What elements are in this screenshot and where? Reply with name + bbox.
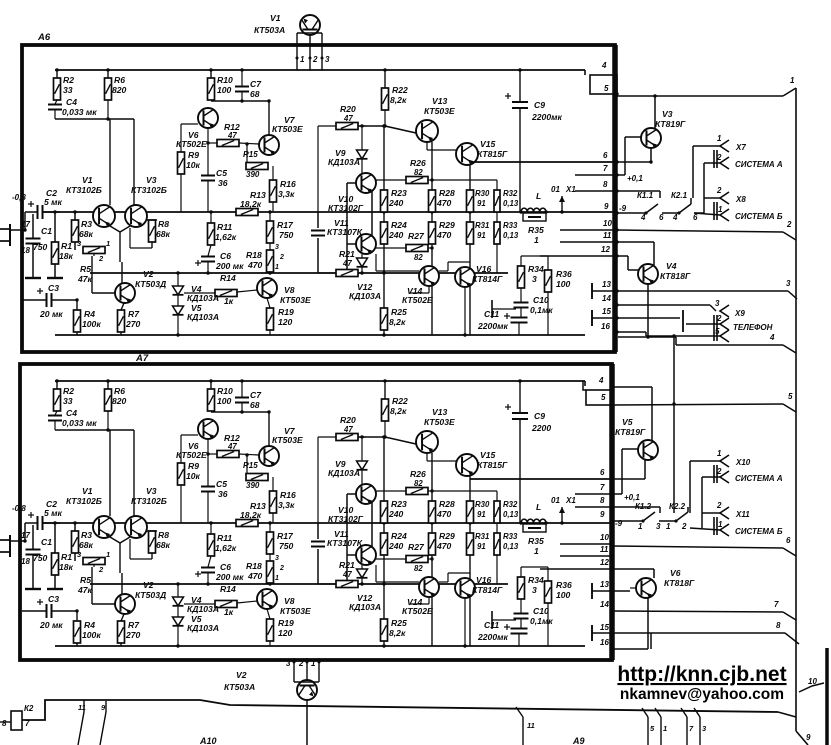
svg-text:СИСТЕМА Б: СИСТЕМА Б: [735, 212, 783, 221]
wire 6 A7: [612, 536, 796, 556]
wire ch2 V14-V16: [376, 565, 470, 582]
wire ch1 pin12stub: [540, 255, 617, 257]
wire 5 stub: [642, 708, 655, 745]
svg-text:68: 68: [250, 400, 260, 410]
svg-text:V5: V5: [622, 417, 633, 427]
svg-text:1: 1: [300, 55, 305, 64]
capacitor C11 ch1: [477, 309, 528, 335]
svg-text:R23: R23: [391, 499, 407, 509]
diode V4 ch2: [173, 582, 220, 614]
transistor V1 ch1: [66, 175, 115, 227]
diode V5 ch1: [173, 295, 220, 337]
capacitor C2 ch2: [25, 499, 63, 541]
svg-text:R27: R27: [408, 542, 425, 552]
svg-text:2: 2: [681, 522, 687, 531]
svg-text:100к: 100к: [82, 319, 101, 329]
svg-text:R8: R8: [158, 219, 169, 229]
svg-text:2: 2: [98, 254, 104, 263]
wire pin12 A6 ext: [617, 256, 639, 270]
svg-text:68к: 68к: [79, 540, 94, 550]
wire ch1 V13-V15: [427, 142, 456, 150]
pin 13 block A7: [600, 580, 614, 593]
svg-text:R28: R28: [439, 499, 455, 509]
svg-text:С4: С4: [66, 408, 77, 418]
wire ch2 pin11stub: [560, 555, 612, 557]
svg-text:R31: R31: [475, 221, 489, 230]
svg-text:КТ3102Б: КТ3102Б: [66, 185, 102, 195]
wire right trunk: [796, 88, 808, 745]
wire 11 stub left: [78, 700, 86, 745]
resistor R21 ch1: [318, 212, 362, 277]
svg-text:3: 3: [275, 555, 279, 562]
wire 10 link: [799, 677, 824, 692]
svg-text:14: 14: [600, 600, 609, 609]
capacitor C11 ch2: [477, 620, 528, 646]
wire ch2 mid rail: [43, 521, 612, 524]
svg-text:КТ818Г: КТ818Г: [660, 271, 691, 281]
svg-text:X10: X10: [735, 458, 751, 467]
wire V5 emit: [612, 460, 645, 479]
svg-text:КТ3102Б: КТ3102Б: [131, 185, 167, 195]
svg-text:-0,8: -0,8: [12, 193, 26, 202]
capacitor C3 ch2: [22, 594, 78, 630]
transistor V5 KT819G: [615, 417, 658, 460]
capacitor C8 ch2: [311, 542, 325, 547]
wire ch1 pin13stub: [592, 283, 617, 299]
svg-text:11: 11: [603, 231, 612, 240]
svg-text:2: 2: [786, 220, 792, 229]
svg-text:R21: R21: [339, 249, 355, 259]
svg-text:КТ814Г: КТ814Г: [472, 274, 503, 284]
svg-text:750: 750: [33, 242, 48, 252]
connector X7 pin2: [704, 153, 783, 169]
svg-text:R36: R36: [556, 269, 572, 279]
wire ch2 pin8stub: [575, 506, 612, 508]
wire ch2 base column: [347, 494, 356, 581]
wire ch1 V9-V10: [362, 159, 366, 173]
wire ch1 pin15stub: [592, 310, 617, 326]
svg-text:R2: R2: [63, 386, 74, 396]
svg-text:С10: С10: [533, 295, 549, 305]
svg-text:С3: С3: [48, 594, 59, 604]
svg-text:V3: V3: [146, 486, 157, 496]
svg-text:А10: А10: [199, 736, 217, 745]
connector X9 pin2: [617, 310, 773, 332]
wire ch2 bottom rail: [55, 645, 585, 647]
svg-text:01: 01: [551, 185, 560, 194]
diode V12 ch1: [349, 254, 381, 301]
wire pin4 A7 ext: [612, 387, 652, 440]
resistor R11 ch2: [208, 521, 237, 556]
wire 11 stub: [516, 707, 535, 745]
wire V6 base: [612, 588, 636, 591]
svg-text:20 мк: 20 мк: [39, 309, 63, 319]
svg-text:R16: R16: [280, 490, 296, 500]
svg-text:8,2к: 8,2к: [390, 406, 407, 416]
svg-text:С1: С1: [41, 226, 52, 236]
transistor V15 ch1: [456, 139, 508, 165]
capacitor C10 ch1: [514, 295, 554, 317]
svg-text:R6: R6: [114, 75, 125, 85]
wire V1 pins: [297, 33, 322, 70]
connector X9 pin3: [617, 299, 745, 318]
wire ch1 fb: [55, 117, 134, 205]
svg-text:100к: 100к: [82, 630, 101, 640]
transistor V2 ch1: [115, 269, 166, 303]
capacitor C7 ch2: [235, 379, 262, 412]
svg-text:6: 6: [659, 213, 664, 222]
resistor R28 ch2: [429, 499, 455, 523]
transistor V7 ch2: [259, 426, 303, 466]
wire ch1 V2coll: [121, 262, 123, 283]
svg-text:КТ503Е: КТ503Е: [424, 417, 455, 427]
svg-text:V6: V6: [670, 568, 681, 578]
svg-text:R35: R35: [528, 536, 544, 546]
resistor R32 ch2: [494, 491, 519, 533]
svg-text:R23: R23: [391, 188, 407, 198]
svg-text:1к: 1к: [224, 607, 234, 617]
svg-text:470: 470: [247, 571, 263, 581]
svg-text:82: 82: [414, 253, 423, 262]
wire V2 down: [306, 706, 308, 745]
relay K2 bottom left: [0, 704, 34, 730]
svg-text:0,13: 0,13: [503, 510, 519, 519]
svg-text:L: L: [536, 502, 541, 512]
wire ch2 C2-base: [43, 522, 60, 524]
trimmer R5 ch1: [77, 239, 110, 284]
svg-text:R28: R28: [439, 188, 455, 198]
svg-text:3: 3: [275, 244, 279, 251]
node X1 ch1: [551, 185, 576, 214]
wire X10 link: [690, 461, 702, 528]
svg-text:А7: А7: [135, 353, 149, 364]
svg-text:КД103А: КД103А: [187, 312, 219, 322]
svg-text:470: 470: [436, 198, 452, 208]
svg-text:390: 390: [246, 170, 260, 179]
wire 9 stub left: [100, 701, 106, 745]
resistor R3 ch2: [72, 523, 94, 561]
svg-text:4: 4: [640, 213, 646, 222]
resistor R31 ch1: [467, 221, 490, 244]
svg-text:47: 47: [342, 570, 352, 579]
resistor R23 ch2: [381, 499, 407, 523]
wire ch1 bottom rail: [55, 334, 585, 336]
wire 2 A6: [617, 220, 796, 240]
svg-text:4: 4: [769, 333, 775, 342]
resistor R33 ch1: [494, 221, 519, 273]
svg-text:470: 470: [436, 541, 452, 551]
svg-text:120: 120: [278, 317, 293, 327]
svg-text:R33: R33: [503, 221, 518, 230]
pin 16 block A7: [600, 638, 614, 651]
svg-text:68к: 68к: [156, 540, 171, 550]
svg-text:R15: R15: [243, 150, 258, 159]
svg-text:2: 2: [716, 501, 722, 510]
resistor R26 ch1: [376, 158, 432, 184]
svg-text:91: 91: [477, 199, 486, 208]
svg-text:2: 2: [98, 565, 104, 574]
svg-text:R14: R14: [220, 584, 236, 594]
svg-text:R35: R35: [528, 225, 544, 235]
transistor V3 ch1: [125, 175, 167, 227]
svg-text:X1: X1: [565, 496, 576, 505]
svg-text:1: 1: [106, 550, 110, 559]
wire right margin: [825, 648, 829, 745]
wire 3 stub: [694, 708, 707, 745]
svg-text:X8: X8: [735, 195, 746, 204]
svg-text:КТ3107К: КТ3107К: [327, 538, 363, 548]
resistor R33 ch2: [494, 532, 519, 584]
transistor V4 KT818G: [638, 261, 691, 284]
resistor R10 ch1: [208, 68, 233, 100]
wire ch1 col432: [430, 142, 433, 335]
svg-text:3,3к: 3,3к: [278, 500, 295, 510]
transistor V14 ch2: [402, 577, 439, 616]
svg-text:R1: R1: [61, 241, 72, 251]
svg-text:КД103А: КД103А: [328, 157, 360, 167]
wire K2 out: [22, 700, 778, 720]
wire ch1 pin10stub: [560, 229, 617, 231]
svg-text:7: 7: [600, 483, 605, 492]
transistor V15 ch2: [456, 450, 508, 476]
resistor R35 ch1: [523, 213, 546, 245]
resistor R30 ch2: [467, 500, 490, 523]
capacitor C9 ch1: [505, 68, 562, 212]
svg-text:R10: R10: [217, 386, 233, 396]
svg-text:4: 4: [601, 61, 607, 70]
wire pin12 A7 ext: [612, 569, 654, 578]
wire ch2 pin14stub: [492, 611, 516, 629]
svg-text:91: 91: [477, 510, 486, 519]
wire 1 stub: [655, 708, 667, 745]
wire ch2 lower rail: [90, 583, 508, 585]
svg-text:R36: R36: [556, 580, 572, 590]
svg-text:R21: R21: [339, 560, 355, 570]
svg-text:X11: X11: [735, 510, 750, 519]
resistor R8 ch1: [147, 219, 171, 248]
svg-text:R1: R1: [61, 552, 72, 562]
pin 18 ch2: [21, 557, 30, 566]
svg-text:11: 11: [527, 721, 535, 730]
trimmer marks ch2: [275, 555, 284, 582]
pin 11 block A7: [600, 545, 614, 558]
wire V5 base: [612, 449, 640, 502]
svg-text:1: 1: [275, 264, 279, 271]
svg-text:R5: R5: [80, 575, 91, 585]
resistor R24 ch1: [381, 220, 407, 244]
svg-text:20 мк: 20 мк: [39, 620, 63, 630]
pin 15 block A6: [602, 307, 619, 320]
wire ch2 pin13stub: [592, 583, 612, 599]
resistor R12 ch1: [206, 122, 259, 147]
wire ch2 R32top: [432, 491, 497, 523]
wire ch1 col384: [382, 124, 385, 336]
wire 4 A6: [676, 333, 796, 353]
svg-text:11: 11: [78, 703, 86, 712]
svg-text:3: 3: [786, 279, 791, 288]
wire ch2 V9-V10: [362, 470, 366, 484]
resistor R27 ch1: [376, 231, 432, 262]
svg-text:R20: R20: [340, 104, 356, 114]
svg-text:18к: 18к: [59, 562, 74, 572]
svg-text:К2: К2: [24, 704, 34, 713]
svg-text:R6: R6: [114, 386, 125, 396]
svg-text:С9: С9: [534, 411, 545, 421]
connector X7: [693, 134, 746, 168]
capacitor C2 ch1: [25, 188, 63, 230]
resistor R10 ch2: [208, 379, 233, 411]
svg-text:R16: R16: [280, 179, 296, 189]
svg-text:V2: V2: [143, 269, 154, 279]
svg-text:750: 750: [33, 553, 48, 563]
svg-text:R17: R17: [277, 531, 294, 541]
resistor R7 ch1: [118, 303, 141, 335]
relay contact K2.1: [662, 191, 704, 222]
svg-text:1: 1: [534, 235, 539, 245]
resistor R23 ch1: [381, 188, 407, 212]
pin 8 block A7: [600, 496, 614, 509]
pin 4-5 notch A6: [590, 75, 617, 94]
svg-text:240: 240: [388, 198, 404, 208]
wire ch1 pin6row: [470, 161, 617, 163]
wire ch1 base column: [347, 183, 356, 270]
pin 13 block A6: [602, 280, 619, 293]
wire ch1 V10-V11 emitters: [371, 191, 373, 237]
resistor R14 ch1: [184, 273, 257, 306]
svg-text:К2.1: К2.1: [671, 191, 688, 200]
capacitor C4 ch2: [48, 408, 97, 430]
svg-text:270: 270: [125, 319, 141, 329]
svg-text:С1: С1: [41, 537, 52, 547]
svg-text:ТЕЛЕФОН: ТЕЛЕФОН: [733, 323, 773, 332]
svg-text:СИСТЕМА А: СИСТЕМА А: [735, 474, 783, 483]
svg-text:1: 1: [275, 575, 279, 582]
svg-text:9: 9: [604, 202, 609, 211]
svg-text:R5: R5: [80, 264, 91, 274]
svg-text:R17: R17: [277, 220, 294, 230]
svg-text:47: 47: [343, 425, 353, 434]
trimmer R5 ch2: [77, 550, 110, 595]
svg-text:К1.1: К1.1: [637, 191, 654, 200]
wire pin8 A7 ext: [612, 507, 660, 513]
connector X9 pin5: [714, 315, 729, 342]
wire ch2 y101: [211, 410, 269, 413]
capacitor C10 ch2: [514, 606, 554, 628]
svg-text:0,13: 0,13: [503, 542, 519, 551]
svg-text:12: 12: [601, 245, 610, 254]
svg-text:R3: R3: [81, 219, 92, 229]
svg-text:2200: 2200: [531, 423, 551, 433]
capacitor C6 ch1: [195, 245, 244, 275]
svg-text:+0,1: +0,1: [624, 493, 640, 502]
svg-text:1: 1: [106, 239, 110, 248]
svg-text:5 мк: 5 мк: [44, 197, 63, 207]
wire V6 emit: [612, 598, 651, 649]
svg-text:3: 3: [325, 55, 330, 64]
pin 17 ch1: [21, 220, 30, 229]
svg-text:R26: R26: [410, 158, 426, 168]
resistor R3 ch1: [72, 212, 94, 250]
svg-text:18к: 18к: [59, 251, 74, 261]
transistor V2 KT503A bottom: [224, 670, 317, 700]
capacitor C9 ch2: [505, 379, 551, 523]
svg-text:R3: R3: [81, 530, 92, 540]
wire pin6 A6 ext: [617, 161, 650, 163]
pin 11 block A6: [603, 231, 619, 244]
svg-text:270: 270: [125, 630, 141, 640]
svg-text:С7: С7: [250, 79, 262, 89]
node X1 ch2: [551, 496, 576, 525]
svg-text:0,1мк: 0,1мк: [530, 616, 553, 626]
svg-text:R27: R27: [408, 231, 425, 241]
svg-text:КД103А: КД103А: [349, 602, 381, 612]
svg-text:5 мк: 5 мк: [44, 508, 63, 518]
svg-text:-9: -9: [619, 204, 627, 213]
svg-text:3: 3: [286, 659, 291, 668]
resistor R19 ch2: [267, 609, 294, 646]
svg-text:5: 5: [788, 392, 793, 401]
relay contact K1.2: [612, 502, 661, 531]
svg-text:V3: V3: [662, 109, 673, 119]
wire ch2 fb: [55, 428, 134, 516]
wire ch2 R5-V2base: [92, 567, 115, 604]
svg-text:С6: С6: [220, 251, 231, 261]
svg-text:http://knn.cjb.net: http://knn.cjb.net: [617, 663, 786, 686]
wire ch1 emitters: [110, 226, 130, 262]
wire V4 emit: [618, 284, 676, 339]
svg-text:А6: А6: [37, 32, 51, 43]
relay contact K1.1: [617, 191, 664, 222]
svg-text:33: 33: [63, 396, 73, 406]
resistor R22 ch2: [382, 379, 408, 437]
capacitor C1 ch2: [25, 525, 52, 589]
wire V3 coll: [653, 94, 656, 128]
capacitor C8 ch1: [311, 231, 325, 236]
resistor R13 ch2: [236, 501, 266, 527]
svg-text:6: 6: [693, 213, 698, 222]
svg-text:2200мк: 2200мк: [531, 112, 562, 122]
resistor R11 ch1: [208, 210, 237, 245]
svg-text:R4: R4: [84, 309, 95, 319]
svg-text:V13: V13: [432, 407, 448, 417]
transistor V10 ch1: [328, 173, 376, 213]
svg-text:С9: С9: [534, 100, 545, 110]
resistor R14 ch2: [184, 584, 257, 617]
svg-text:КТ818Г: КТ818Г: [664, 578, 695, 588]
svg-text:5: 5: [604, 84, 609, 93]
svg-text:R4: R4: [84, 620, 95, 630]
svg-text:V8: V8: [284, 285, 295, 295]
svg-text:240: 240: [388, 509, 404, 519]
svg-text:2200мк: 2200мк: [477, 632, 508, 642]
pin 5 block A6: [604, 84, 619, 96]
wire ch2 V7coll: [267, 410, 270, 446]
wire ch2 pin10stub: [560, 543, 612, 545]
resistor R15 ch2: [243, 453, 268, 490]
capacitor C1 ch1: [25, 214, 52, 278]
wire pin7 A6 ext: [617, 137, 643, 183]
svg-text:47: 47: [227, 442, 237, 451]
svg-text:R26: R26: [410, 469, 426, 479]
svg-text:4: 4: [598, 376, 604, 385]
resistor R36 ch2: [521, 567, 572, 646]
svg-text:18: 18: [21, 557, 30, 566]
transistor V13 ch1: [416, 96, 455, 142]
svg-text:12: 12: [600, 558, 609, 567]
svg-text:R29: R29: [439, 531, 455, 541]
wire 7 stub: [681, 708, 694, 745]
svg-text:14: 14: [602, 294, 611, 303]
